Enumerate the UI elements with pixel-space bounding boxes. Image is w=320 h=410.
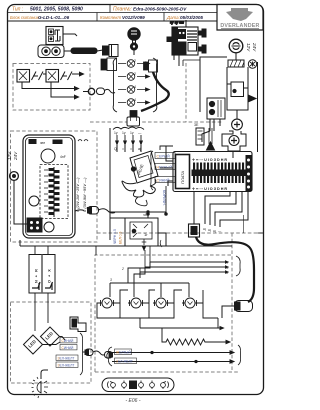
svg-text:4: 4 bbox=[134, 85, 136, 89]
svg-text:8 (3W-9M ~95V —): 8 (3W-9M ~95V —) bbox=[82, 177, 87, 212]
svg-text:- E06 -: - E06 - bbox=[125, 398, 140, 404]
svg-text:СЕРЫЙ: СЕРЫЙ bbox=[157, 154, 171, 158]
svg-text:чб: чб bbox=[143, 213, 147, 217]
svg-text:2: 2 bbox=[121, 267, 124, 271]
svg-text:зел: зел bbox=[40, 141, 45, 145]
svg-text:4пF: 4пF bbox=[60, 155, 66, 159]
svg-text:гу гу гт: гу гу гт bbox=[170, 21, 184, 25]
svg-text:N + R: N + R bbox=[35, 268, 39, 283]
svg-text:3Е: 3Е bbox=[194, 123, 199, 127]
svg-text:щ: щ bbox=[213, 229, 216, 233]
svg-text:ЗЕЛ-ЖЕЛТ: ЗЕЛ-ЖЕЛТ bbox=[58, 356, 75, 360]
svg-text:24V: 24V bbox=[252, 42, 257, 52]
svg-text:O + X: O + X bbox=[48, 268, 52, 283]
svg-text:V012/V099: V012/V099 bbox=[122, 15, 145, 20]
svg-text:Edra-2006-5090-2005-DV: Edra-2006-5090-2005-DV bbox=[133, 7, 187, 12]
svg-text:1у: 1у bbox=[114, 131, 118, 135]
svg-text:G-LD-L-01...06: G-LD-L-01...06 bbox=[38, 15, 70, 20]
svg-text:3: 3 bbox=[110, 278, 112, 282]
svg-text:6 (2W-1M ~15V —): 6 (2W-1M ~15V —) bbox=[75, 177, 80, 212]
svg-text:щ: щ bbox=[208, 228, 211, 232]
svg-text:СИНИЙ: СИНИЙ bbox=[62, 346, 75, 350]
svg-text:=: = bbox=[130, 147, 132, 151]
svg-text:12V: 12V bbox=[246, 43, 251, 52]
svg-text:✛ ━ ⋯ U I О З D Н R: ✛ ━ ⋯ U I О З D Н R bbox=[192, 187, 227, 191]
svg-text:ПЛАТА: ПЛАТА bbox=[180, 171, 185, 184]
svg-text:24V: 24V bbox=[13, 151, 18, 161]
svg-text:1г: 1г bbox=[144, 232, 148, 237]
svg-text:Блок питания: Блок питания bbox=[10, 15, 40, 20]
svg-text:ЗЕЛ-ЖЕЛТ: ЗЕЛ-ЖЕЛТ bbox=[116, 359, 133, 363]
svg-text:ЖЕЛТЫЙ: ЖЕЛТЫЙ bbox=[116, 350, 131, 354]
svg-text:05/03/2005: 05/03/2005 bbox=[180, 15, 203, 20]
svg-text:План№:: План№: bbox=[113, 7, 132, 13]
svg-text:=: = bbox=[122, 147, 124, 151]
svg-text:12V: 12V bbox=[7, 151, 12, 160]
svg-text:Комплект: Комплект bbox=[100, 15, 121, 20]
svg-text:щ: щ bbox=[203, 227, 206, 231]
svg-text:4: 4 bbox=[134, 98, 136, 102]
svg-text:1у: 1у bbox=[130, 131, 134, 135]
svg-text:Тип :: Тип : bbox=[12, 7, 24, 13]
svg-text:Дата:: Дата: bbox=[166, 15, 181, 20]
svg-text:2: 2 bbox=[134, 72, 136, 76]
svg-text:БЕЛ 0.5: БЕЛ 0.5 bbox=[119, 232, 123, 244]
svg-text:ЧЕРНЫЙ: ЧЕРНЫЙ bbox=[157, 165, 173, 169]
svg-text:ЧЕРН 0.5: ЧЕРН 0.5 bbox=[113, 229, 117, 244]
svg-text:5001, 2005, 5008, 5090: 5001, 2005, 5008, 5090 bbox=[30, 7, 83, 13]
svg-text:1у: 1у bbox=[122, 131, 126, 135]
svg-text:ЗЕЛ-ЖЕЛТ: ЗЕЛ-ЖЕЛТ bbox=[58, 363, 75, 367]
svg-text:КОРИЧН.: КОРИЧН. bbox=[162, 190, 166, 206]
svg-text:✛ ━ ⋯ U I О З D Н R: ✛ ━ ⋯ U I О З D Н R bbox=[192, 158, 227, 162]
svg-text:2: 2 bbox=[134, 59, 136, 63]
svg-text:СИНИЙ: СИНИЙ bbox=[62, 339, 75, 343]
